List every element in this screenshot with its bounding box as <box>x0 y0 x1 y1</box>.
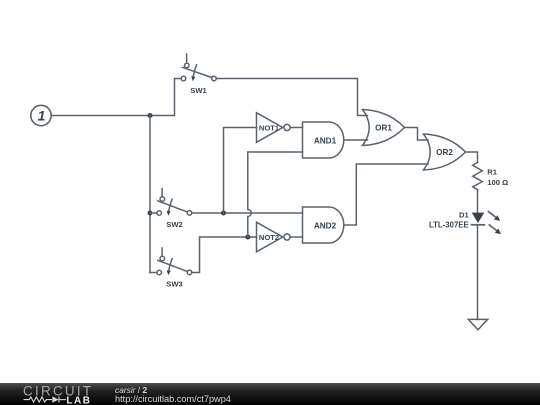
not gate NOT2 <box>257 222 291 252</box>
wire NOT2 output to AND2 lower input <box>290 236 302 238</box>
switch SW2 <box>157 189 192 230</box>
and gate AND2 <box>303 207 344 243</box>
svg-text:D1: D1 <box>459 211 469 220</box>
svg-text:OR2: OR2 <box>436 148 453 157</box>
or gate OR1 <box>363 110 405 146</box>
svg-text:R1: R1 <box>487 167 497 176</box>
wire R1 to D1 <box>477 190 479 213</box>
svg-text:SW3: SW3 <box>166 280 182 289</box>
svg-text:SW1: SW1 <box>190 86 207 95</box>
or gate OR2 <box>424 134 466 170</box>
wire OR2 output to R1 <box>466 152 478 162</box>
and gate AND1 <box>303 122 344 158</box>
wire up to SW1 left terminal <box>175 79 182 116</box>
svg-text:100 Ω: 100 Ω <box>487 178 508 187</box>
wire node1 to junction <box>51 115 174 117</box>
svg-text:AND2: AND2 <box>314 222 337 231</box>
wire left column corner to SW3 left terminal <box>150 272 157 274</box>
junction J1 <box>148 113 153 118</box>
CircuitLab logo <box>23 384 93 405</box>
wire OR1 output to OR2 upper input <box>405 128 429 141</box>
switch SW3 <box>157 248 192 289</box>
wire D1 to ground <box>477 225 479 320</box>
junction J3 on SW2 output <box>221 211 226 216</box>
wire SW1 to OR1 upper input <box>216 79 367 116</box>
wire SW3 output up to NOT2 input <box>192 237 257 273</box>
footer title text <box>115 385 231 404</box>
wire AND1 output to OR1 lower input <box>344 139 368 141</box>
resistor R1 <box>473 162 508 189</box>
svg-text:LTL-307EE: LTL-307EE <box>429 221 469 230</box>
junction J4 on NOT2 input <box>245 235 250 240</box>
svg-text:AND1: AND1 <box>314 137 337 146</box>
svg-text:http://circuitlab.com/ct7pwp4: http://circuitlab.com/ct7pwp4 <box>115 394 231 404</box>
wire NOT1 output to AND1 upper input <box>290 127 302 129</box>
svg-text:LAB: LAB <box>66 395 91 405</box>
wire AND1 lower input down with hop to J4 <box>248 152 303 237</box>
wire J1 down to SW3 <box>149 116 151 273</box>
led D1 <box>429 211 501 234</box>
wire AND2 output to OR2 lower input <box>344 164 428 225</box>
svg-text:1: 1 <box>38 108 46 124</box>
ground <box>468 319 487 329</box>
svg-text:SW2: SW2 <box>166 220 182 229</box>
wire SW2 output to AND2 upper input <box>192 212 303 214</box>
switch SW1 <box>181 54 216 95</box>
junction J2 at SW2 <box>148 211 153 216</box>
svg-text:OR1: OR1 <box>375 124 392 133</box>
footer bar <box>0 383 540 405</box>
not gate NOT1 <box>257 113 291 143</box>
svg-text:NOT2: NOT2 <box>259 233 279 242</box>
node 1 <box>31 105 51 125</box>
svg-text:NOT1: NOT1 <box>259 123 280 132</box>
wire J3 up to NOT1 input <box>224 128 257 214</box>
wire J2 to SW2 left terminal <box>150 212 157 214</box>
